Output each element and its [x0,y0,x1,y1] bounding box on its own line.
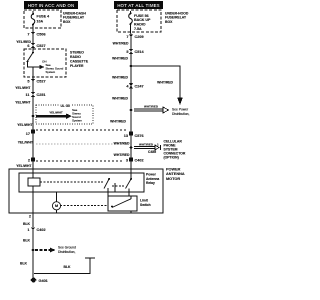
svg-text:C251: C251 [37,93,46,97]
svg-text:BLK: BLK [20,262,28,266]
svg-text:5: 5 [27,80,29,84]
svg-text:YEL/WHT: YEL/WHT [49,111,63,115]
svg-text:BOX: BOX [165,20,173,24]
svg-text:C402: C402 [135,159,144,163]
wire BLK: motor box to C402 pin 1 [32,213,34,227]
svg-text:11: 11 [25,93,29,97]
svg-text:WHT/RED: WHT/RED [144,104,159,108]
svg-text:C527: C527 [37,80,46,84]
svg-text:BLK: BLK [64,265,72,269]
svg-text:3: 3 [126,159,128,163]
svg-text:FUSE 56: FUSE 56 [134,14,149,18]
connector C576 pin 17 (left half) [31,130,35,134]
svg-text:17: 17 [26,132,30,136]
power antenna relay box [19,173,144,192]
svg-text:C455: C455 [148,150,156,154]
svg-text:C209: C209 [135,35,144,39]
wire: fuse F4 to connector C506 [32,28,34,33]
svg-text:C506: C506 [37,33,46,37]
wire: C576 bridge (dashed) [36,129,127,131]
connector C402 pin 3 (right half) [129,158,133,162]
svg-text:Distribution,: Distribution, [58,250,75,254]
svg-text:1: 1 [27,228,29,232]
svg-text:BLK: BLK [23,239,31,243]
connector C514 pin 5 [126,49,144,54]
wire WHT/RED: C514 down main run [130,54,132,169]
svg-text:UL G5: UL G5 [61,104,71,108]
svg-text:RADIO: RADIO [70,55,81,59]
wire arrow (open) to cellular phone connector [134,147,155,149]
stereo radio cassette player box (dashed) [24,49,66,77]
wire: C402 pin3 into relay contact [130,162,132,179]
connector C209 pin 7 [126,35,143,40]
svg-text:WHT/RED: WHT/RED [114,153,130,157]
node: branch to power distribution [130,65,133,68]
svg-text:FUSE 4: FUSE 4 [37,15,50,19]
svg-text:YEL/WHT: YEL/WHT [17,123,33,127]
note: See Stereo Sound System (inside radio) [28,62,40,67]
node: branch to stereo sound system [32,115,35,118]
limit switch box [108,196,137,211]
svg-text:HOT AT ALL TIMES: HOT AT ALL TIMES [117,3,160,8]
svg-text:6: 6 [27,44,29,48]
svg-text:WHT/RED: WHT/RED [112,57,128,61]
svg-text:POWER: POWER [166,168,181,172]
svg-text:WHT/RED: WHT/RED [112,97,128,101]
fuse F56 symbol [129,11,133,25]
svg-text:C247: C247 [135,84,144,88]
svg-text:System: System [46,70,56,74]
svg-text:7.5A: 7.5A [134,27,142,31]
svg-text:C576: C576 [135,134,144,138]
ground G401 [31,278,36,283]
power feed bar: HOT IN ACC AND ON [24,1,78,9]
svg-text:5: 5 [126,50,128,54]
fuse F4 symbol [31,11,35,28]
limit switch contacts [111,206,113,208]
svg-text:YEL/WHT: YEL/WHT [15,101,31,105]
svg-text:See Ground: See Ground [58,245,76,249]
wire: radio switch to C527 pin 5 [32,67,34,79]
wire: fuse F56 to C209 [130,32,133,35]
wire YEL/WHT: main run down to motor box [32,97,34,169]
wire arrow (open) to See Power Distribution [134,109,163,111]
svg-text:MOTOR: MOTOR [166,177,180,181]
wire: C402 pin2 into relay coil [32,162,34,178]
svg-text:2: 2 [29,215,31,219]
wire arrow (dashed) to See Ground Distribution [35,249,50,251]
svg-text:ANTENNA: ANTENNA [166,172,185,176]
connector C247 pin 4 [126,83,143,88]
connector C506 pin 7 [27,32,45,37]
svg-text:BOX: BOX [63,20,71,24]
connector C251 pin 11 [25,92,45,97]
svg-text:HOT IN ACC AND ON: HOT IN ACC AND ON [28,3,75,8]
svg-text:WHT/RED: WHT/RED [139,142,154,146]
power antenna motor box (dashed) [9,169,163,213]
svg-text:WHT/RED: WHT/RED [110,120,126,124]
svg-text:System: System [72,118,83,122]
linkage motor to limit switch (dashed) [60,205,108,207]
wire YEL/RED: C506 to C527 [32,36,34,43]
svg-text:YEL/WHT: YEL/WHT [16,164,32,168]
svg-text:C527: C527 [37,44,46,48]
node: ground distribution branch [32,249,35,252]
svg-text:G401: G401 [39,279,48,283]
motor M [56,192,58,202]
svg-text:CASSETTE: CASSETTE [70,60,89,64]
wire BLK: down to ground [32,273,34,278]
svg-text:(OPTION): (OPTION) [164,156,179,160]
reference: See Stereo Sound System (UL G5) dotted frame [36,105,93,124]
under-dash fuse/relay box (dashed) [24,10,61,28]
svg-text:STEREO: STEREO [70,51,84,55]
svg-text:WHT/RED: WHT/RED [157,81,173,85]
connector C527 pin 6 [27,43,45,48]
power feed bar: HOT AT ALL TIMES [114,1,163,9]
wire WHT/RED branch to power distribution [131,66,180,97]
connector C402 pin 2 (left half) [31,158,35,162]
wire: coil to ground exit [32,186,34,213]
svg-text:7: 7 [27,33,29,37]
wire: C402 bridge (dashed) [36,160,124,162]
svg-text:WHT/RED: WHT/RED [112,76,128,80]
svg-text:RADIO: RADIO [134,23,146,27]
wire: faint C-bridge (dashed) [36,143,127,145]
svg-text:YEL/WHT: YEL/WHT [15,86,31,90]
svg-text:WHT/RED: WHT/RED [114,142,130,146]
relay linkage (dashed) [40,181,104,183]
svg-text:WHT/RED: WHT/RED [113,42,129,46]
node: branch to cellular phone [130,146,133,149]
relay contact B [130,178,132,180]
svg-text:C402: C402 [37,228,46,232]
svg-text:Switch: Switch [140,203,151,207]
svg-text:BLK: BLK [23,222,31,226]
radio power switch [32,48,34,52]
svg-text:13: 13 [124,134,128,138]
wire YEL/WHT: C527 to C251 [32,83,34,92]
connector C402 pin 1 [27,228,45,233]
wire WHT/RED: C209 to C514 [130,39,132,50]
connector C576 pin 13 (right half) [129,132,133,136]
svg-text:10A: 10A [37,20,44,24]
svg-text:BACK UP: BACK UP [134,18,151,22]
svg-text:PLAYER: PLAYER [70,64,84,68]
wire BLK: C402 to ground [32,232,34,274]
under-hood fuse/relay box (dashed) [117,10,161,32]
svg-text:Relay: Relay [146,181,155,185]
relay coil [28,178,40,186]
connector C527 pin 5 [27,79,45,84]
wire BLK: second ground branch [34,259,90,274]
svg-text:YEL/WHT: YEL/WHT [18,141,34,145]
svg-text:Distribution,: Distribution, [172,112,189,116]
node: branch arrow to power distribution [130,109,133,112]
svg-text:C514: C514 [135,50,145,54]
svg-text:2: 2 [28,159,30,163]
svg-text:7: 7 [126,35,128,39]
relay contact A [108,178,110,180]
